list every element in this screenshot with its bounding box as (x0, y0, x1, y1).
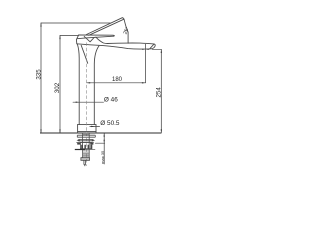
column left side (77, 44, 79, 124)
wire max35 bottom line (95, 142, 104, 144)
angle reference line (127, 33, 129, 44)
nut right ear (90, 143, 93, 145)
svg-text:254: 254 (156, 87, 163, 98)
handle cone intersection (84, 36, 94, 41)
lever handle tip edge (122, 18, 127, 30)
svg-text:Ø 50.5: Ø 50.5 (100, 120, 120, 127)
aerator cut line (150, 44, 154, 49)
svg-text:302: 302 (54, 82, 61, 93)
funnel inner edge (81, 45, 88, 63)
svg-text:335: 335 (35, 69, 42, 80)
lever handle top edge (86, 18, 122, 35)
base left side (77, 125, 79, 133)
wire 254 dimension line (160, 49, 162, 133)
wire 335 dimension line (40, 23, 42, 133)
nut slot 2 (84, 145, 86, 149)
centerline (86, 43, 88, 167)
angle arc (126, 30, 128, 32)
arrow max35 up (104, 133, 105, 136)
hose tip (84, 165, 85, 167)
arrow 335 top (40, 23, 41, 27)
base chamfer (78, 130, 96, 132)
wire 180 dimension line (87, 82, 146, 84)
nut slot 4 (90, 145, 91, 149)
arrow 254 top (161, 49, 162, 53)
neck S-curve (96, 37, 108, 43)
nut top tab line (76, 142, 93, 144)
wire 180 right extension line (145, 44, 147, 83)
nut slot 1 (81, 145, 82, 149)
wire dia50.5 leader (90, 125, 100, 127)
svg-text:max 35: max 35 (100, 150, 105, 164)
nut slot 3 (88, 145, 89, 149)
spout top profile (108, 42, 154, 45)
wire max35 dimension line (103, 133, 105, 164)
nut left ear (77, 143, 80, 145)
arrow outlet right (146, 49, 149, 50)
arrow outlet left (142, 49, 145, 50)
arrow 180 right (142, 82, 146, 83)
wire dia46 leader (73, 101, 104, 103)
column right side (94, 46, 99, 125)
horseshoe washer left tab (77, 139, 80, 141)
wire 254 top extension line (152, 48, 161, 50)
arrow dia50.5 (91, 126, 95, 127)
arrow dia46 (76, 102, 80, 103)
spout bottom profile (77, 44, 155, 49)
flat washer (77, 135, 95, 137)
shank right side (88, 133, 90, 158)
wire 335 top extension line (41, 22, 110, 24)
mounting nut body (80, 143, 92, 149)
shank left side (82, 133, 84, 158)
horseshoe washer right tab (92, 139, 95, 141)
hose stub (84, 160, 86, 164)
base right side (95, 125, 97, 133)
shank end block (81, 158, 90, 161)
arrow 180 left (87, 82, 91, 83)
base top (78, 124, 96, 126)
arrow 335 bottom (40, 129, 41, 133)
node deck line (40, 132, 161, 134)
svg-text:180: 180 (112, 77, 123, 83)
arrow 254 bottom (161, 129, 162, 133)
arrow max35 down (104, 140, 105, 143)
arrow 302 top (59, 36, 60, 40)
lever handle bottom edge (89, 19, 124, 35)
head rear tip wedge (76, 35, 78, 44)
svg-text:Ø 46: Ø 46 (104, 97, 118, 104)
wire 302 dimension line (59, 36, 61, 134)
arrow 302 bottom (59, 129, 60, 133)
thread hatching (83, 134, 90, 157)
head ridge top (79, 35, 115, 36)
wire 302 top extension line (60, 35, 79, 37)
horseshoe washer (78, 140, 93, 141)
lower washer line (75, 149, 85, 151)
head ridge bottom (77, 36, 113, 39)
